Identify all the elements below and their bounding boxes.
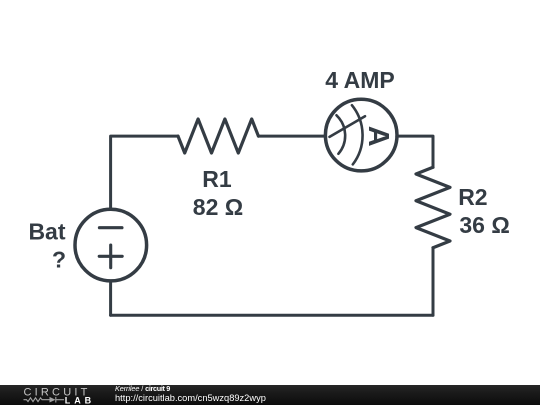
- svg-text:4 AMP: 4 AMP: [325, 67, 394, 93]
- wire bottom: [111, 314, 433, 317]
- logo resistor-diode symbol: [24, 396, 65, 402]
- svg-text:82 Ω: 82 Ω: [193, 194, 243, 220]
- resistor R2: [416, 167, 450, 247]
- footer bar: [0, 385, 540, 406]
- svg-text:LAB: LAB: [65, 395, 95, 405]
- wire R1 to ammeter: [258, 135, 325, 138]
- svg-text:R2: R2: [458, 184, 487, 210]
- svg-text:36 Ω: 36 Ω: [459, 212, 509, 238]
- svg-text:A: A: [362, 126, 394, 147]
- ammeter AM1: [325, 99, 397, 171]
- svg-text:?: ?: [52, 247, 66, 273]
- footer line 2: [115, 394, 266, 402]
- battery BAT1: [75, 209, 147, 281]
- wire bottom-left to battery bottom: [109, 282, 112, 315]
- svg-text:Bat: Bat: [28, 218, 65, 244]
- wire R2 to bottom-right corner: [432, 248, 435, 316]
- wire top-left: battery top to R1: [111, 136, 178, 208]
- wire ammeter to R2: [397, 136, 433, 167]
- resistor R1: [178, 119, 258, 153]
- footer line 1: [115, 385, 170, 393]
- svg-text:R1: R1: [202, 166, 232, 192]
